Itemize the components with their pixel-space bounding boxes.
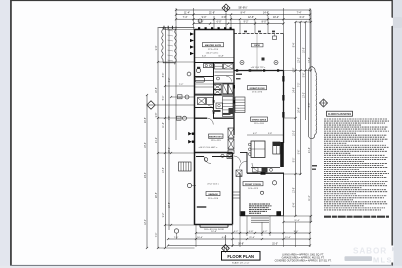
svg-text:BEDROOM 2: BEDROOM 2 <box>209 136 223 138</box>
lighter bottom border right segment <box>330 265 392 266</box>
keynote diamond right <box>320 99 328 107</box>
porch column right <box>276 211 281 216</box>
dimension line row 3 <box>176 18 310 20</box>
svg-text:12’-6”: 12’-6” <box>248 16 254 19</box>
garage top wall <box>196 156 204 158</box>
watermark background patch over border <box>391 246 394 263</box>
svg-text:LIVING AREA = APPROX. 1961 SQ.: LIVING AREA = APPROX. 1961 SQ. FT. <box>282 253 324 256</box>
patio center post line <box>256 34 258 71</box>
wall: entry strip left <box>239 173 241 216</box>
hall lower wall y107 <box>195 107 214 109</box>
svg-text:±9’-0” CLG ±: ±9’-0” CLG ± <box>207 184 219 186</box>
dishwasher box <box>253 168 259 172</box>
small keynote texts along great room left <box>236 74 242 76</box>
svg-text:SABOR: SABOR <box>353 247 387 256</box>
master vanity <box>204 64 214 68</box>
hall shelf line <box>215 71 234 73</box>
svg-text:10’-2”: 10’-2” <box>294 130 296 136</box>
bedroom2 left wall window nibs <box>192 133 195 135</box>
witness lines from top dims <box>175 8 177 30</box>
label: FRONT PORCH <box>243 182 263 186</box>
svg-text:11’0 x 10’0: 11’0 x 10’0 <box>254 123 265 125</box>
svg-text:10’-8”: 10’-8” <box>169 202 171 208</box>
svg-text:18’-4”: 18’-4” <box>145 142 147 148</box>
svg-text:8’-0”: 8’-0” <box>262 21 267 24</box>
svg-text:±10’ CLG TYP ±: ±10’ CLG TYP ± <box>251 67 266 69</box>
porch circled tag <box>272 181 276 185</box>
svg-text:6’-0”: 6’-0” <box>222 237 227 239</box>
svg-text:9’-0”: 9’-0” <box>202 16 207 19</box>
svg-text:8’-6”: 8’-6” <box>163 72 165 77</box>
patio label: COVERED PATIO <box>252 43 264 47</box>
svg-text:GARAGE: GARAGE <box>208 193 218 196</box>
entry closet with X <box>236 170 242 177</box>
svg-text:14’0 x 13’8: 14’0 x 13’8 <box>248 188 259 190</box>
exterior wall: left side of house <box>194 30 196 226</box>
svg-text:14’-6”: 14’-6” <box>294 87 296 93</box>
svg-text:11’-4”: 11’-4” <box>163 122 165 128</box>
fence post ticks <box>163 26 165 29</box>
exterior wall: garage bottom <box>195 224 233 226</box>
right dim ties <box>296 21 312 23</box>
bottom dim row 3 <box>168 245 310 247</box>
drawing title box: FLOOR PLAN <box>222 252 261 261</box>
great room rear wall (glass) <box>234 70 284 72</box>
horizontal tick dims joining left columns <box>176 29 195 31</box>
tag circle hall <box>217 77 220 80</box>
porch right edge <box>283 173 285 216</box>
svg-text:8’-4”: 8’-4” <box>294 42 296 47</box>
room label: GARAGE <box>206 192 220 196</box>
dining-kitchen divider stub <box>234 134 247 136</box>
porch slab bottom edge <box>240 215 284 217</box>
svg-text:26’-8”: 26’-8” <box>156 192 158 198</box>
svg-text:FLOOR PLAN: FLOOR PLAN <box>227 254 254 259</box>
svg-text:9’-2”: 9’-2” <box>244 21 249 24</box>
svg-text:9’-4”: 9’-4” <box>156 45 158 50</box>
svg-text:6’-4”: 6’-4” <box>294 202 296 207</box>
right vertical dim line 1 <box>295 22 297 216</box>
cabinet <box>207 98 214 105</box>
svg-text:4’-2”: 4’-2” <box>234 231 239 233</box>
master left wall window arrows <box>190 32 194 35</box>
svg-text:31’-0”: 31’-0” <box>272 244 278 246</box>
svg-text:21’0 x 20’6: 21’0 x 20’6 <box>208 198 219 200</box>
wall: great room / core left <box>233 30 235 136</box>
svg-text:MLS: MLS <box>373 255 393 264</box>
bottom witness lines <box>195 225 197 247</box>
right vertical dim line 4 <box>310 10 312 222</box>
small note right band <box>312 165 317 167</box>
bottom dim row 2 <box>168 238 310 240</box>
water closet partition <box>195 76 214 78</box>
svg-text:21’-8”: 21’-8” <box>209 11 215 14</box>
circle tag bottom left <box>174 229 178 233</box>
svg-text:13’-2”: 13’-2” <box>304 92 306 98</box>
porch column left <box>241 211 246 216</box>
svg-text:11’-4”: 11’-4” <box>285 237 291 239</box>
north arrow <box>222 4 230 12</box>
exterior wall: master suite top <box>194 29 235 31</box>
south keynote diamond bottom <box>222 235 230 252</box>
great room right wall <box>283 71 285 144</box>
great room left wall nibs <box>233 85 235 89</box>
front entry door leaf <box>261 172 266 175</box>
svg-text:GREAT ROOM: GREAT ROOM <box>250 87 265 90</box>
tag box B2 <box>178 95 183 99</box>
master closet <box>195 81 214 95</box>
sheet border bottom <box>10 265 392 266</box>
bottom dim row 1 <box>196 232 310 234</box>
kitchen dim line <box>247 134 284 136</box>
svg-text:16’-8”: 16’-8” <box>156 87 158 93</box>
notes bold bottom line <box>324 216 389 218</box>
pantry shelves <box>235 97 245 113</box>
window tag marks above patio <box>244 31 247 33</box>
svg-text:8’-8”: 8’-8” <box>309 102 311 107</box>
svg-text:5’-6”: 5’-6” <box>304 72 306 77</box>
room label: MASTER SUITE <box>203 43 224 47</box>
notes title box: FLOOR PLAN NOTES <box>327 111 353 116</box>
tub <box>195 78 205 83</box>
planting bed / hedge scallop outline left <box>162 28 176 65</box>
svg-text:MASTER SUITE: MASTER SUITE <box>205 44 222 47</box>
vertical dimension line left 2 <box>157 27 159 248</box>
garage entry door arc <box>204 157 211 164</box>
svg-text:58’-8½”: 58’-8½” <box>238 6 247 10</box>
svg-text:13’-6”: 13’-6” <box>163 167 165 173</box>
range <box>262 167 268 172</box>
refrigerator <box>273 142 280 154</box>
porch note paragraph <box>249 203 270 205</box>
background strip below sheet <box>0 266 402 268</box>
svg-text:6’-0”: 6’-0” <box>217 21 222 24</box>
hedge scallop right <box>309 67 317 139</box>
rear fence line left of house <box>159 26 195 28</box>
svg-text:11’-0”: 11’-0” <box>309 195 311 201</box>
dimension line: overall top (row 1) <box>176 9 310 11</box>
svg-text:24’-4”: 24’-4” <box>145 172 147 178</box>
circle tag <box>185 95 189 99</box>
notes body text lines <box>324 118 387 120</box>
patio hanging tag <box>273 36 277 39</box>
watermark grey bar <box>345 256 373 261</box>
svg-text:SCALE: 1/4” = 1’-0”: SCALE: 1/4” = 1’-0” <box>232 262 250 265</box>
svg-text:7’-2”: 7’-2” <box>299 82 301 87</box>
svg-text:21’-4”: 21’-4” <box>309 147 311 153</box>
svg-text:7’-2”: 7’-2” <box>179 84 184 86</box>
kitchen small labels <box>213 110 221 112</box>
svg-text:4’-2”: 4’-2” <box>253 133 257 135</box>
watermark triangle <box>392 247 397 251</box>
dimension slash ticks <box>175 9 177 11</box>
svg-text:6’-4”: 6’-4” <box>300 16 305 19</box>
patio floor outlet mark <box>262 58 265 61</box>
washer dryer boxes <box>223 84 228 94</box>
exterior steps at garage left <box>179 162 192 171</box>
ceiling fan patio right <box>274 61 278 65</box>
interior dim line in master <box>195 57 235 59</box>
svg-text:5’-8”: 5’-8” <box>268 133 272 135</box>
master suite bottom wall <box>195 62 235 64</box>
svg-text:8’-0”: 8’-0” <box>294 157 296 162</box>
wall: garage right <box>232 153 234 225</box>
svg-text:6’-2”: 6’-2” <box>169 77 171 82</box>
right vertical dim line 3 <box>305 22 307 120</box>
grey tab outside right border <box>393 17 402 28</box>
buffet cabinets column <box>228 128 234 138</box>
svg-text:13’-8”: 13’-8” <box>294 187 296 193</box>
svg-text:7’-4”: 7’-4” <box>183 16 188 19</box>
svg-text:9’-6”: 9’-6” <box>299 149 301 154</box>
svg-text:16’-0”: 16’-0” <box>197 237 203 239</box>
vertical dimension line far left <box>146 95 148 248</box>
bar stools <box>248 143 251 146</box>
linen cabinet with X <box>198 98 206 105</box>
sheet border top <box>10 0 392 1</box>
svg-text:FLOOR PLAN NOTES: FLOOR PLAN NOTES <box>328 113 351 116</box>
porch fixture circle <box>260 191 263 194</box>
white notch on right border <box>389 18 394 27</box>
kitchen island <box>251 141 265 158</box>
kitchen sink <box>270 168 273 171</box>
circle tag upper <box>187 72 191 76</box>
svg-text:9’-2”: 9’-2” <box>163 212 165 217</box>
kitchen bottom wall <box>247 172 284 174</box>
svg-text:16’-4”: 16’-4” <box>299 107 301 113</box>
svg-text:7’-8”: 7’-8” <box>169 115 171 120</box>
sheet border left <box>10 0 12 266</box>
svg-text:PATIO: PATIO <box>254 44 260 47</box>
svg-text:17’4 x 19’6: 17’4 x 19’6 <box>252 92 263 94</box>
hall shelf line <box>215 75 234 77</box>
right vertical dim line 2 <box>300 22 302 175</box>
witness line left of master wall <box>175 26 177 140</box>
closet shelves x222-233 y95-117 <box>223 97 234 117</box>
bedroom2 door arc <box>207 118 213 125</box>
toilet <box>196 68 200 72</box>
svg-text:DINING AREA: DINING AREA <box>252 118 267 121</box>
garage overhead door recess <box>200 226 228 228</box>
svg-text:5’-4”: 5’-4” <box>202 56 206 58</box>
svg-text:5’-0”: 5’-0” <box>163 95 165 100</box>
entry door swing arc <box>252 163 261 172</box>
circled keynote tag top <box>198 19 202 23</box>
dimension line row 2 <box>176 14 310 16</box>
window nibs right wall <box>282 76 284 82</box>
svg-text:13’-4”: 13’-4” <box>309 57 311 63</box>
keynote circle garage left <box>187 183 191 187</box>
entry side steps <box>233 191 240 193</box>
vertical dimension line left 3 <box>165 27 167 248</box>
covered patio outline (rear) <box>234 33 284 35</box>
svg-text:11’-8”: 11’-8” <box>218 56 223 58</box>
hall wall vertical <box>213 95 215 118</box>
svg-text:38’-8”: 38’-8” <box>238 244 244 246</box>
dim line y222 right <box>284 221 312 223</box>
kitchen counter bottom <box>251 167 280 169</box>
dark cabinet mark <box>229 108 234 114</box>
svg-text:17’6 x 15’0: 17’6 x 15’0 <box>208 49 219 51</box>
keynote diamond left <box>147 101 195 109</box>
small fixtures row y112-116 <box>216 103 223 109</box>
svg-text:8’-4”: 8’-4” <box>241 11 246 14</box>
svg-text:FRONT PORCH: FRONT PORCH <box>245 184 261 186</box>
room label: GREAT ROOM <box>248 86 267 90</box>
water heater platform <box>227 154 232 159</box>
room label: BEDROOM 2 <box>209 134 224 138</box>
tag box and circle at bedroom wall tie <box>177 116 182 120</box>
bath partition vertical <box>213 63 215 96</box>
svg-text:±10’-0” CLG ±: ±10’-0” CLG ± <box>206 52 219 54</box>
kitchen left wall segment <box>246 152 248 173</box>
svg-text:9’-8”: 9’-8” <box>156 112 158 117</box>
page background right of sheet <box>392 0 402 268</box>
svg-text:11’-4”: 11’-4” <box>184 11 190 14</box>
svg-text:7’-4”: 7’-4” <box>297 11 302 14</box>
svg-text:12’-0”: 12’-0” <box>145 219 147 225</box>
dim tie y86 <box>165 85 195 87</box>
svg-text:4’-2”: 4’-2” <box>263 231 268 233</box>
entry door arcs near kitchen <box>240 161 248 169</box>
svg-text:GARAGE AREA = APPROX. 462 SQ.: GARAGE AREA = APPROX. 462 SQ. FT. <box>282 256 325 259</box>
svg-text:21’-0”: 21’-0” <box>249 237 255 239</box>
hall door jambs <box>213 100 215 103</box>
window nibs on top wall <box>198 27 200 29</box>
svg-text:12’-2”: 12’-2” <box>299 57 301 63</box>
svg-text:11’-4”: 11’-4” <box>294 220 299 222</box>
svg-text:29’-8”: 29’-8” <box>145 117 147 123</box>
ceiling fan patio left <box>240 61 244 65</box>
shower stall with X <box>214 85 221 90</box>
svg-text:15’-0”: 15’-0” <box>169 147 171 153</box>
vertical dimension line left 4 <box>168 29 170 230</box>
garage tag circles <box>204 158 208 162</box>
sheet border right <box>392 0 393 266</box>
svg-text:COVERED OUTDOOR AREA = APPROX.: COVERED OUTDOOR AREA = APPROX. 507 SQ. F… <box>275 259 332 262</box>
hall wall y95 <box>195 94 235 96</box>
kitchen media wall poche <box>280 142 284 167</box>
dim tie y97 with tag <box>171 96 195 98</box>
garage left wall step text <box>197 206 207 208</box>
room label: DINING AREA <box>251 117 268 121</box>
svg-text:5’-8”: 5’-8” <box>249 231 254 233</box>
porch front steps <box>251 217 269 219</box>
svg-text:7’-0”: 7’-0” <box>174 237 179 239</box>
hall wall y83 <box>214 82 235 84</box>
bedroom2 bottom wall (garage separation) <box>195 152 233 154</box>
hall built-ins x214-233 y63-82 <box>215 64 223 70</box>
svg-text:10’-2”: 10’-2” <box>273 16 279 19</box>
svg-text:10’-8”: 10’-8” <box>304 47 306 53</box>
bedroom2 top wall <box>195 117 208 119</box>
svg-text:±10’-0” CLG. HGT. ±: ±10’-0” CLG. HGT. ± <box>199 147 219 149</box>
dimension line row 4 <box>194 23 284 25</box>
svg-text:21’-2”: 21’-2” <box>156 137 158 143</box>
svg-text:12’0 x 11’0: 12’0 x 11’0 <box>211 140 222 142</box>
svg-text:12’-0”: 12’-0” <box>211 231 217 233</box>
svg-text:7’-0”: 7’-0” <box>156 232 158 237</box>
